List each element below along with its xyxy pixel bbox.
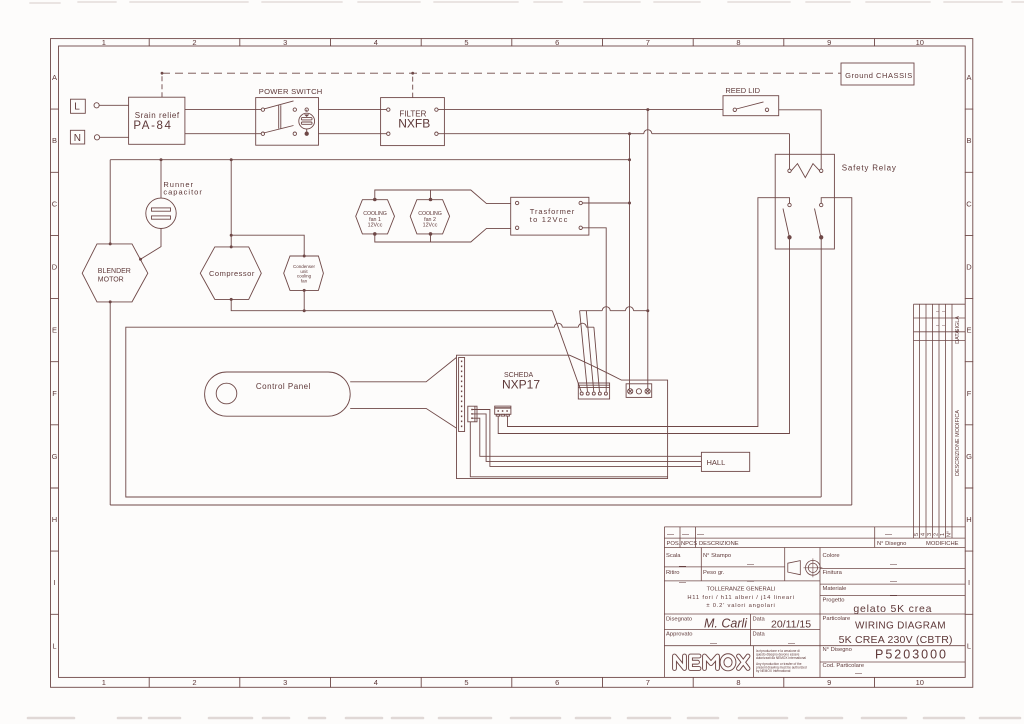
svg-text:3: 3 bbox=[927, 533, 933, 536]
svg-text:G: G bbox=[52, 452, 58, 461]
svg-text:Control Panel: Control Panel bbox=[256, 382, 311, 391]
NEMOX logo bbox=[675, 656, 749, 669]
svg-text:5K CREA 230V (CBTR): 5K CREA 230V (CBTR) bbox=[839, 634, 953, 646]
svg-text:± 0.2' valori angolari: ± 0.2' valori angolari bbox=[706, 603, 775, 609]
svg-text:SIGLA: SIGLA bbox=[955, 316, 961, 333]
power switch coupler bbox=[279, 105, 281, 128]
svg-text:Data: Data bbox=[753, 632, 766, 638]
svg-text:DESCRIZIONE: DESCRIZIONE bbox=[699, 541, 739, 547]
svg-text:BLENDER: BLENDER bbox=[98, 268, 131, 275]
wire to power switch L bbox=[185, 109, 261, 111]
wire N down to coil left bbox=[789, 134, 791, 169]
screw terminal hole 2 bbox=[636, 389, 641, 394]
wire filter N to relay coil with hop over 647.8 bbox=[438, 130, 789, 134]
svg-text:Approvato: Approvato bbox=[666, 632, 692, 638]
svg-text:4: 4 bbox=[374, 38, 378, 47]
svg-text:Scala: Scala bbox=[666, 553, 681, 559]
terminal block top bars bbox=[578, 385, 609, 387]
svg-text:Compressor: Compressor bbox=[209, 269, 255, 278]
svg-text:Colore: Colore bbox=[823, 553, 840, 559]
3-pin connector on board bbox=[495, 406, 511, 414]
svg-text:D: D bbox=[966, 263, 972, 272]
control panel knob circle bbox=[216, 383, 237, 404]
ground chassis box bbox=[841, 63, 914, 85]
svg-text:E: E bbox=[966, 326, 971, 335]
relay right-bottom to inner loop bbox=[820, 239, 822, 497]
terminal block pin 3 bbox=[592, 392, 595, 395]
svg-text:N° Stampo: N° Stampo bbox=[703, 553, 731, 559]
filter contact N-in bbox=[387, 132, 390, 135]
compressor hexagon bbox=[200, 247, 261, 300]
wire switch to filter L bbox=[319, 109, 387, 111]
svg-text:—: — bbox=[855, 671, 862, 678]
svg-text:TOLLERANZE GENERALI: TOLLERANZE GENERALI bbox=[707, 587, 776, 593]
svg-text:A: A bbox=[966, 73, 971, 82]
runner capacitor bbox=[146, 198, 176, 228]
svg-text:MOTOR: MOTOR bbox=[98, 276, 124, 283]
svg-text:N°: N° bbox=[947, 531, 953, 537]
filter contact L-out bbox=[435, 108, 438, 111]
inner loop: relay right-bottom to board pin3 bbox=[126, 323, 821, 497]
svg-text:9: 9 bbox=[827, 38, 831, 47]
small print bbox=[756, 649, 807, 673]
transformer terminal in-top bbox=[515, 201, 518, 204]
line A diagonal to board pin1 bbox=[552, 311, 581, 392]
svg-text:1: 1 bbox=[102, 678, 106, 687]
junction dot ground line / strain relief riser bbox=[161, 72, 164, 75]
terminal circle N bbox=[94, 135, 99, 140]
svg-text:—: — bbox=[667, 531, 674, 538]
relay switch 1 bottom contact bbox=[788, 236, 791, 239]
dashed riser filter bbox=[412, 73, 414, 97]
wire switch to filter N bbox=[319, 133, 387, 135]
fan2 stub wires bbox=[430, 190, 432, 242]
svg-text:B: B bbox=[966, 136, 971, 145]
wire reed to relay coil right bbox=[779, 110, 822, 169]
relay right-top contact routing (outer loop right) bbox=[821, 198, 852, 505]
power switch lamp tap N (junction) bbox=[305, 132, 308, 135]
outer loop bottom bbox=[110, 504, 852, 506]
reed lid box bbox=[723, 96, 779, 116]
TITLE BLOCK bbox=[664, 304, 965, 677]
terminal block pin 1 bbox=[580, 392, 583, 395]
svg-text:Ritiro: Ritiro bbox=[666, 570, 680, 576]
svg-text:Ground CHASSIS: Ground CHASSIS bbox=[845, 71, 913, 80]
nest outline bottom bbox=[375, 228, 511, 242]
relay switch 2 blade bbox=[815, 209, 821, 236]
svg-text:DATA: DATA bbox=[955, 330, 961, 344]
screw terminal hole 1 bbox=[628, 389, 633, 394]
terminal L bbox=[71, 99, 86, 113]
svg-text:autorizzati da NEMOX Internati: autorizzati da NEMOX International bbox=[756, 656, 806, 660]
transformer box bbox=[511, 197, 589, 235]
transformer terminal out-top bbox=[579, 201, 582, 204]
svg-text:—: — bbox=[885, 531, 892, 538]
relay switch 2 bottom contact bbox=[820, 236, 823, 239]
cone projection symbol bbox=[788, 561, 801, 575]
right column rows bbox=[820, 568, 965, 662]
wire condenser fan drop bbox=[303, 290, 305, 310]
relay switch 2 top contact bbox=[820, 203, 823, 206]
svg-text:C: C bbox=[52, 199, 58, 208]
svg-text:L: L bbox=[74, 102, 80, 113]
relay switch 1 top contact bbox=[788, 203, 791, 206]
relay left-top contact routing bbox=[508, 198, 790, 427]
svg-text:H11 fori / h11 alberi / j14 li: H11 fori / h11 alberi / j14 lineari bbox=[687, 595, 794, 601]
junction dot fan2 top bbox=[429, 198, 433, 202]
relay left-bottom to wire2 bbox=[498, 239, 789, 434]
lamp electrode bars bbox=[301, 118, 312, 120]
svg-text:G: G bbox=[966, 452, 972, 461]
scan noise top edge bbox=[30, 2, 1024, 3]
svg-text:MODIFICHE: MODIFICHE bbox=[926, 541, 959, 547]
svg-text:Materiale: Materiale bbox=[823, 586, 847, 592]
modifiche mini columns bbox=[914, 527, 953, 538]
svg-text:L: L bbox=[967, 641, 971, 650]
power switch contact N-in bbox=[261, 132, 264, 135]
revision strip rotated texts bbox=[914, 309, 961, 537]
junction dot bus / compressor riser bbox=[230, 158, 233, 161]
left column rows bbox=[664, 567, 965, 646]
svg-text:capacitor: capacitor bbox=[163, 188, 202, 197]
svg-text:—: — bbox=[747, 578, 754, 585]
svg-text:Finitura: Finitura bbox=[823, 570, 843, 576]
transformer right-bottom to pin5 bbox=[582, 228, 606, 392]
title block text bbox=[666, 309, 961, 678]
reed lid contact right bbox=[765, 108, 768, 111]
svg-text:Srain relief: Srain relief bbox=[135, 111, 180, 120]
relay coil zigzag bbox=[791, 164, 820, 178]
L riser x=647.8 down to A2 line and 3-hole block bbox=[647, 110, 649, 390]
svg-text:Disegnato: Disegnato bbox=[666, 617, 692, 623]
edge connector strip bbox=[459, 358, 465, 432]
svg-text:L: L bbox=[52, 641, 56, 650]
outer loop left: bus to blender motor bbox=[109, 160, 111, 505]
svg-text:D: D bbox=[52, 263, 58, 272]
junction dot ground line / filter riser bbox=[411, 72, 414, 75]
screw terminal hole 3 bbox=[645, 389, 650, 394]
branch to condenser fan bbox=[231, 235, 304, 256]
junction dot condenser fan bottom vertex bbox=[303, 289, 306, 292]
svg-text:10: 10 bbox=[916, 678, 924, 687]
svg-text:REED LID: REED LID bbox=[725, 86, 760, 95]
svg-text:6: 6 bbox=[555, 678, 559, 687]
terminal circle L bbox=[94, 103, 99, 108]
svg-text:6: 6 bbox=[555, 38, 559, 47]
svg-text:M. Carli: M. Carli bbox=[704, 617, 748, 631]
handle to flare bbox=[350, 358, 456, 429]
relay switch 1 blade bbox=[783, 209, 789, 236]
power switch contact N-out bbox=[293, 132, 296, 135]
svg-text:H: H bbox=[52, 515, 57, 524]
svg-text:8: 8 bbox=[736, 38, 740, 47]
5-pin terminal block bbox=[578, 383, 609, 399]
svg-text:—: — bbox=[890, 562, 897, 569]
capacitor plate bars bbox=[152, 208, 171, 211]
junction dot fan2 bottom bbox=[429, 232, 433, 236]
cooling fan 2 hexagon bbox=[410, 200, 449, 234]
wire N to strain relief bbox=[100, 136, 129, 138]
filter contact L-in bbox=[387, 108, 390, 111]
svg-text:N: N bbox=[74, 133, 81, 144]
dashed ground riser from strain relief bbox=[161, 73, 163, 97]
svg-text:—: — bbox=[710, 640, 717, 647]
main bus N (y=159.7) bbox=[110, 159, 629, 161]
terminal block pin 5 bbox=[604, 392, 607, 395]
svg-text:12Vcc: 12Vcc bbox=[423, 223, 438, 229]
svg-text:7: 7 bbox=[646, 38, 650, 47]
svg-text:—: — bbox=[682, 531, 689, 538]
terminal N bbox=[70, 130, 84, 144]
CIRCUIT TEXT bbox=[74, 71, 913, 467]
junction dot blender motor bottom bbox=[109, 300, 112, 303]
svg-text:Progetto: Progetto bbox=[823, 598, 845, 604]
svg-text:F: F bbox=[52, 389, 57, 398]
svg-text:1: 1 bbox=[102, 38, 106, 47]
svg-text:A: A bbox=[52, 73, 57, 82]
junction dot fan1 bottom bbox=[373, 232, 377, 236]
power switch lamp tap L bbox=[305, 108, 308, 111]
compressor bottom to line A bbox=[231, 299, 552, 310]
svg-text:—: — bbox=[697, 531, 704, 538]
svg-text:3: 3 bbox=[283, 38, 287, 47]
svg-text:HALL: HALL bbox=[707, 458, 726, 467]
svg-text:2: 2 bbox=[934, 533, 940, 536]
svg-text:I: I bbox=[53, 578, 55, 587]
svg-text:fan: fan bbox=[301, 278, 308, 283]
filter NXFB box bbox=[381, 98, 445, 146]
wire compressor riser bbox=[230, 160, 232, 247]
svg-text:5: 5 bbox=[914, 533, 920, 536]
edge connector dotted pin row bbox=[461, 361, 463, 430]
svg-text:NXP17: NXP17 bbox=[502, 378, 540, 392]
junction dot compressor top vertex bbox=[230, 245, 233, 248]
svg-text:gelato 5K crea: gelato 5K crea bbox=[853, 603, 932, 615]
right revision strip bbox=[914, 304, 953, 527]
ruler ticks top/bottom bbox=[149, 39, 874, 46]
svg-text:N° Disegno: N° Disegno bbox=[823, 647, 852, 653]
transformer terminal out-bottom bbox=[579, 226, 582, 229]
svg-text:Peso gr.: Peso gr. bbox=[703, 570, 725, 576]
wires to pins 3 and 4 bbox=[586, 311, 599, 392]
svg-text:Safety Relay: Safety Relay bbox=[842, 164, 897, 173]
junction dot reed riser / line A2 bbox=[646, 309, 649, 312]
junction dot condenser fan top bbox=[303, 255, 306, 258]
svg-text:E: E bbox=[52, 326, 57, 335]
svg-text:—: — bbox=[788, 640, 795, 647]
dashed ground chassis line bbox=[162, 72, 841, 74]
svg-text:2: 2 bbox=[192, 38, 196, 47]
A2 descender to pin2 bbox=[580, 311, 588, 392]
svg-text:Data: Data bbox=[753, 617, 766, 623]
svg-text:DESCRIZIONE MODIFICA: DESCRIZIONE MODIFICA bbox=[955, 410, 961, 476]
relay coil terminal right bbox=[820, 169, 823, 172]
svg-text:WIRING DIAGRAM: WIRING DIAGRAM bbox=[855, 621, 946, 632]
filter contact N-out bbox=[435, 132, 438, 135]
junction dot condenser branch bbox=[230, 234, 233, 237]
svg-text:10: 10 bbox=[916, 38, 924, 47]
4-pin 4th wire bbox=[470, 422, 667, 477]
svg-text:—: — bbox=[679, 580, 686, 587]
power switch contact L-in bbox=[261, 108, 264, 111]
wire to power switch N bbox=[185, 133, 261, 135]
junction dot capacitor to motor edge bbox=[139, 258, 142, 261]
power switch blades bbox=[264, 101, 294, 133]
svg-text:by NEMOX International: by NEMOX International bbox=[756, 669, 791, 673]
dashes (empty values) bbox=[667, 531, 897, 678]
line A2 with hops over x=606.2 and x=629.5, dot at 647.8 bbox=[580, 307, 648, 311]
junction dot blender motor top bbox=[109, 242, 112, 245]
svg-text:I: I bbox=[968, 578, 970, 587]
lamp top marker bbox=[304, 115, 309, 117]
cooling fans nest outline bbox=[375, 190, 511, 204]
HALL box bbox=[701, 452, 749, 471]
blender motor hexagon bbox=[82, 244, 148, 302]
junction dot condenser fan / line A bbox=[303, 309, 306, 312]
wire L to strain relief bbox=[99, 104, 128, 106]
power switch indicator lamp bbox=[299, 113, 315, 129]
lamp stub wires bbox=[306, 110, 308, 134]
svg-text:B: B bbox=[52, 136, 57, 145]
N riser x=629.5 bbox=[629, 134, 631, 390]
wire filter to reed lid (L) bbox=[438, 109, 723, 111]
junction dot fan1 top bbox=[373, 198, 377, 202]
svg-text:20/11/15: 20/11/15 bbox=[771, 619, 811, 631]
terminal block pin 4 bbox=[598, 392, 601, 395]
svg-text:F: F bbox=[967, 389, 972, 398]
power switch contact L-out bbox=[293, 108, 296, 111]
svg-text:1: 1 bbox=[940, 533, 946, 536]
junction dot bus end / N riser bbox=[628, 158, 631, 161]
ruler ticks left/right bbox=[51, 109, 59, 614]
svg-text:P5203000: P5203000 bbox=[875, 648, 948, 662]
svg-text:Particolare: Particolare bbox=[823, 616, 851, 622]
junction dot compressor bottom vertex bbox=[230, 298, 233, 301]
svg-text:3: 3 bbox=[283, 678, 287, 687]
relay coil terminal left bbox=[788, 169, 791, 172]
svg-text:8: 8 bbox=[736, 678, 740, 687]
scheda NXP17 board outline bbox=[457, 355, 668, 478]
junction dot N riser / transformer out bbox=[628, 202, 631, 205]
svg-text:—: — bbox=[679, 563, 686, 570]
junction dot L line / reed riser bbox=[646, 108, 649, 111]
svg-text:N° Disegno: N° Disegno bbox=[877, 541, 906, 547]
svg-text:—: — bbox=[747, 562, 754, 569]
reed lid switch blade bbox=[736, 102, 763, 109]
junction dot N line / N riser bbox=[628, 132, 631, 135]
safety relay box bbox=[775, 154, 834, 249]
control panel pill bbox=[205, 372, 351, 416]
4-pin connector on board bbox=[468, 406, 477, 422]
strain relief PA-84 box bbox=[129, 97, 185, 144]
svg-text:7: 7 bbox=[646, 678, 650, 687]
svg-text:H: H bbox=[966, 515, 971, 524]
reed lid contact left bbox=[733, 108, 736, 111]
svg-text:2: 2 bbox=[192, 678, 196, 687]
svg-text:9: 9 bbox=[827, 678, 831, 687]
svg-text:—: — bbox=[890, 592, 897, 599]
wires 4-pin to HALL bbox=[477, 410, 701, 467]
power switch box bbox=[256, 98, 319, 146]
svg-text:NPCS: NPCS bbox=[681, 541, 697, 547]
terminal block pin 2 bbox=[586, 392, 589, 395]
scan noise bottom edge bbox=[28, 717, 1020, 720]
svg-text:12Vcc: 12Vcc bbox=[368, 223, 383, 229]
svg-text:PA-84: PA-84 bbox=[133, 120, 172, 132]
3-hole terminal block bbox=[626, 384, 652, 398]
transformer right-top to N riser bbox=[582, 202, 629, 204]
junction dot bus / capacitor riser bbox=[160, 158, 163, 161]
svg-text:to 12Vcc: to 12Vcc bbox=[530, 215, 569, 224]
svg-text:POWER SWITCH: POWER SWITCH bbox=[259, 87, 323, 96]
svg-text:POS.: POS. bbox=[667, 541, 681, 547]
wire capacitor risers bbox=[141, 160, 162, 260]
svg-text:C: C bbox=[966, 199, 972, 208]
svg-text:Cod. Particolare: Cod. Particolare bbox=[823, 663, 865, 669]
svg-text:5: 5 bbox=[464, 38, 468, 47]
svg-text:—: — bbox=[890, 578, 897, 585]
svg-text:NXFB: NXFB bbox=[398, 117, 430, 131]
svg-text:5: 5 bbox=[464, 678, 468, 687]
svg-text:4: 4 bbox=[374, 678, 378, 687]
condenser unit cooling fan hexagon bbox=[284, 256, 324, 290]
transformer terminal in-bottom bbox=[515, 226, 518, 229]
cooling fan 1 hexagon bbox=[356, 200, 395, 234]
svg-text:4: 4 bbox=[921, 533, 927, 536]
